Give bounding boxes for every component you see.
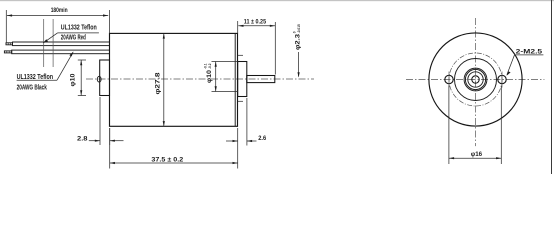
wire W2 stripped end — [4, 51, 11, 53]
svg-text:2.8: 2.8 — [77, 136, 88, 143]
front view vertical centerline — [475, 18, 477, 146]
front view boss outer circle — [465, 69, 485, 89]
svg-text:φ10: φ10 — [206, 69, 213, 83]
front view bolt circle — [449, 53, 502, 106]
side view centerline — [86, 78, 314, 80]
front view boss rim circle — [464, 68, 487, 91]
dimension 2.6 front boss length — [226, 98, 257, 146]
motor body — [110, 33, 238, 126]
shaft — [247, 76, 275, 83]
svg-text:20AWG Red: 20AWG Red — [61, 34, 86, 41]
wire W2 black lead — [12, 50, 110, 54]
svg-text:φ10: φ10 — [70, 73, 77, 87]
rear boss pip — [97, 76, 101, 82]
front view boss inner circle — [468, 72, 483, 87]
label 2-M2.5 leader — [507, 55, 515, 75]
dimension phi16 bolt circle — [449, 86, 501, 165]
svg-text:-0.1: -0.1 — [204, 63, 208, 69]
wire W1 red lead — [13, 42, 110, 46]
dimension 11±0.25 — [238, 21, 276, 75]
svg-text:20AWG Black: 20AWG Black — [17, 84, 47, 91]
dimension phi2.3 shaft — [298, 52, 300, 77]
front view outer circle — [429, 33, 522, 126]
svg-text:2.6: 2.6 — [258, 135, 266, 142]
svg-text:φ2.3: φ2.3 — [294, 33, 301, 50]
front boss step line top — [238, 54, 243, 56]
label black leader shelf — [17, 79, 57, 81]
front boss hidden projection top — [212, 61, 238, 63]
dimension phi10 front boss — [215, 62, 217, 92]
mounting hole right tick — [501, 72, 503, 88]
mounting hole right — [498, 75, 506, 83]
sheet right border — [551, 0, 553, 174]
motor body front face inner line — [234, 33, 236, 126]
dimension 180min — [6, 10, 109, 43]
front boss hidden projection bottom — [212, 91, 238, 93]
rear boss — [100, 60, 110, 96]
wire W1 stripped end — [6, 43, 13, 45]
sheet top border — [0, 0, 554, 2]
svg-text:-0.2: -0.2 — [208, 63, 212, 69]
dimension 2.8 rear boss length — [89, 97, 124, 145]
dimension phi10 rear boss — [78, 60, 86, 96]
svg-text:UL1332 Teflon: UL1332 Teflon — [61, 24, 97, 31]
svg-text:37.5 ± 0.2: 37.5 ± 0.2 — [151, 157, 183, 164]
label 2-M2.5 shelf — [515, 54, 544, 56]
dimension phi27.8 body — [163, 33, 165, 126]
svg-text:φ27.8: φ27.8 — [155, 72, 162, 95]
mounting hole left tick — [448, 72, 450, 88]
front view face step circle — [455, 59, 497, 101]
svg-text:-0.015: -0.015 — [297, 24, 301, 33]
front boss — [238, 62, 247, 97]
label red leader — [43, 33, 57, 43]
svg-text:0: 0 — [292, 31, 296, 33]
dimension 37.5±0.2 body length — [110, 128, 238, 169]
svg-text:φ16: φ16 — [471, 151, 483, 158]
mounting hole left — [445, 75, 453, 83]
wire break mark 1 — [43, 19, 45, 67]
front view horizontal centerline — [406, 79, 544, 81]
svg-text:11 ± 0.25: 11 ± 0.25 — [244, 19, 267, 26]
front view shaft circle — [472, 76, 479, 83]
label black leader — [57, 52, 73, 80]
front boss step line bottom — [238, 100, 243, 102]
label red leader shelf — [58, 32, 99, 34]
svg-text:180min: 180min — [51, 7, 68, 14]
wire break mark 2 — [52, 19, 54, 67]
